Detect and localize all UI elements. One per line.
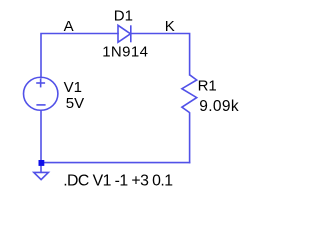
resistor R1 — [182, 75, 197, 113]
ground — [34, 172, 49, 179]
diode D1 — [118, 25, 131, 42]
svg-text:.DC V1 -1 +3 0.1: .DC V1 -1 +3 0.1 — [63, 172, 173, 189]
svg-text:D1: D1 — [114, 8, 133, 25]
svg-text:V1: V1 — [64, 79, 82, 96]
wire right-bottom (resistor to bottom rail) — [189, 113, 191, 163]
wire ground stub — [40, 163, 42, 173]
wire top-right (node K segment) — [131, 34, 190, 75]
svg-text:1N914: 1N914 — [102, 44, 148, 61]
wire top-left (node A segment) — [41, 34, 118, 78]
svg-text:A: A — [64, 18, 74, 35]
wire bottom rail — [41, 162, 190, 164]
svg-text:K: K — [165, 18, 175, 35]
voltage source V1 — [24, 77, 58, 110]
svg-text:5V: 5V — [66, 95, 84, 112]
svg-text:9.09k: 9.09k — [199, 98, 239, 115]
junction node — [39, 160, 45, 166]
svg-text:R1: R1 — [198, 78, 217, 95]
wire left-bottom (source to junction) — [40, 111, 42, 163]
